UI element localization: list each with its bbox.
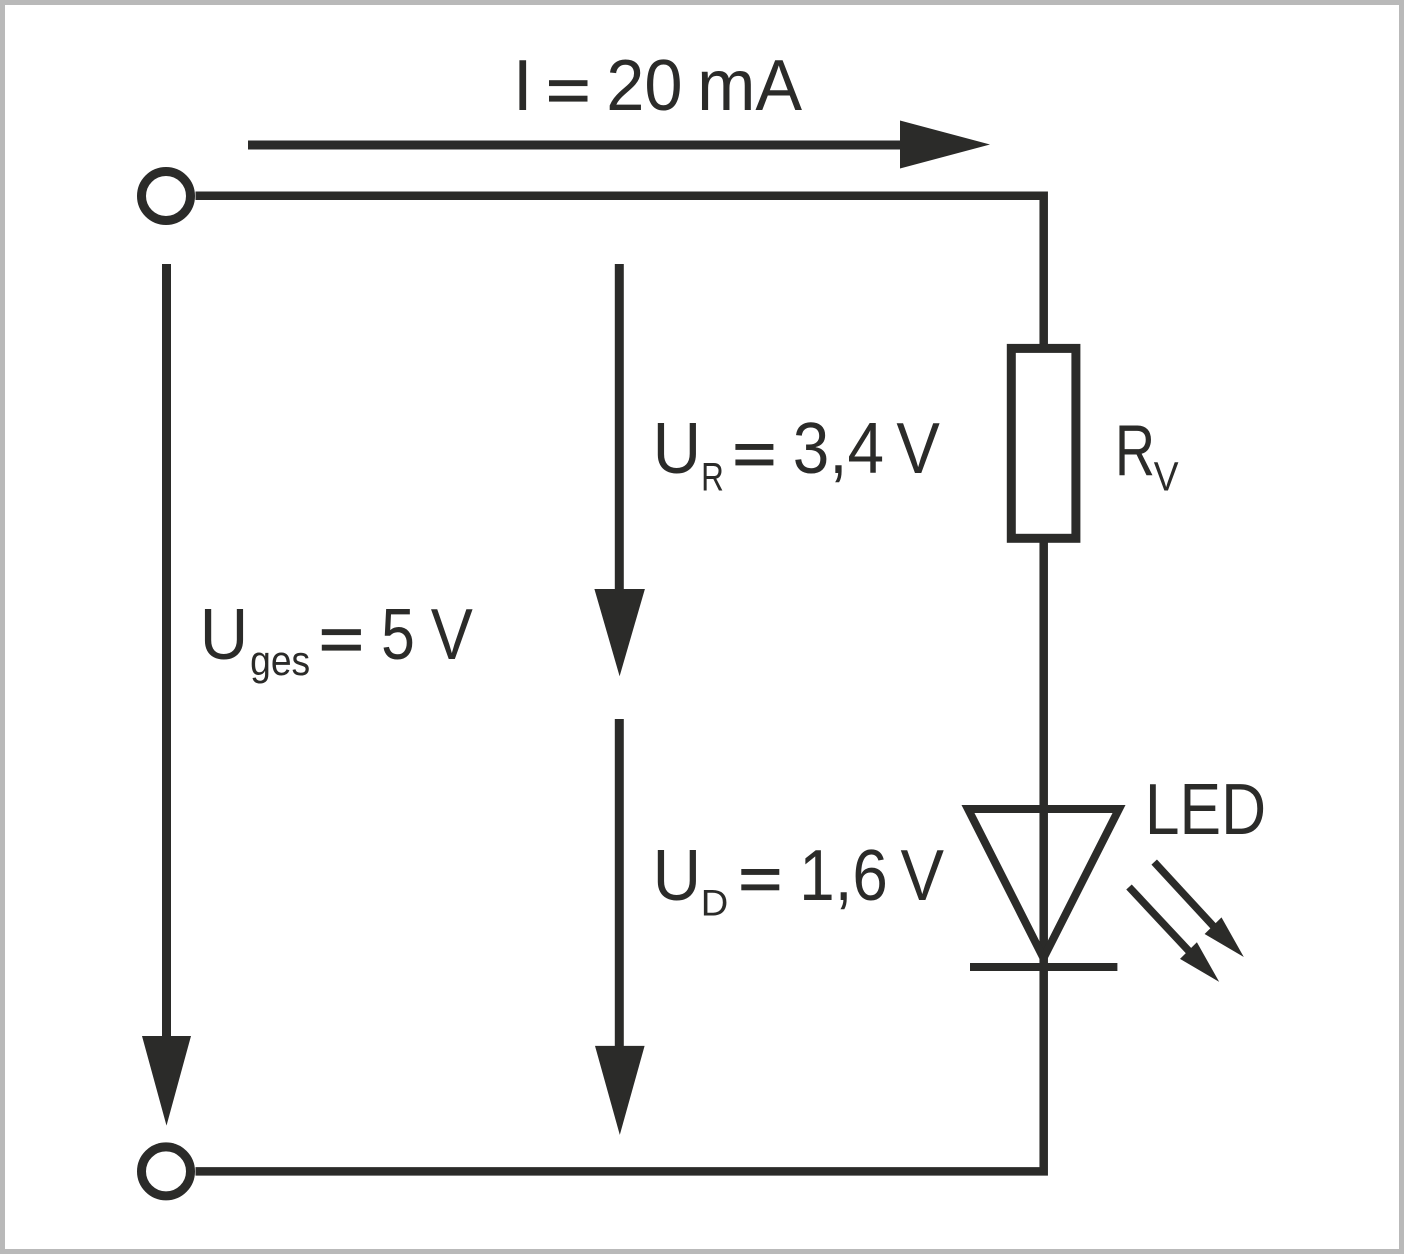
wire resistor to LED to bottom terminal: [196, 538, 1044, 1171]
svg-text:5: 5: [381, 595, 415, 675]
svg-text:U: U: [653, 836, 702, 916]
LED cathode bar: [970, 963, 1117, 971]
svg-text:R: R: [1115, 411, 1155, 491]
svg-text:20: 20: [606, 46, 682, 126]
LED light ray arrow 1: [1154, 862, 1244, 957]
svg-text:D: D: [701, 881, 729, 923]
svg-text:V: V: [901, 836, 945, 916]
voltage arrow UD: [595, 719, 645, 1135]
svg-text:1,6: 1,6: [799, 836, 888, 916]
svg-text:V: V: [1154, 454, 1179, 500]
svg-text:ges: ges: [250, 637, 310, 684]
voltage arrow Uges: [142, 264, 191, 1126]
svg-text:U: U: [200, 595, 249, 675]
svg-text:V: V: [896, 409, 940, 489]
LED light ray arrow 2: [1129, 887, 1219, 982]
wire top (terminal to resistor): [196, 196, 1044, 348]
terminal bottom-left: [142, 1147, 191, 1196]
voltage arrow UR: [594, 264, 645, 676]
terminal top-left: [142, 172, 191, 221]
svg-text:R: R: [701, 455, 724, 499]
resistor RV: [1011, 348, 1076, 538]
svg-text:3,4: 3,4: [793, 409, 884, 489]
svg-text:mA: mA: [697, 46, 802, 126]
svg-text:U: U: [653, 409, 702, 489]
svg-text:V: V: [431, 595, 473, 675]
current arrow I: [248, 121, 990, 169]
svg-text:I: I: [513, 46, 533, 126]
svg-text:LED: LED: [1145, 770, 1266, 850]
LED D1 triangle: [968, 809, 1119, 958]
